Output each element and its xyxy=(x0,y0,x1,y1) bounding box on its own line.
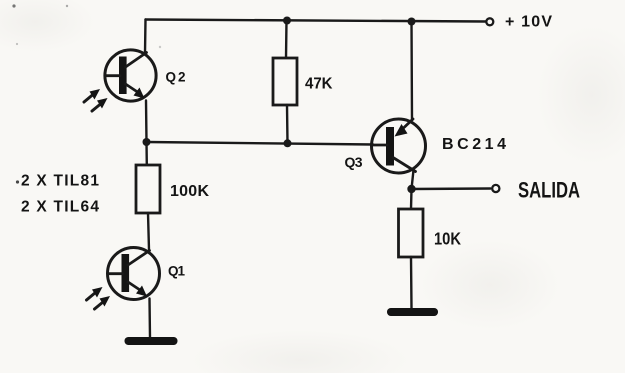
light arrows into Q2 xyxy=(84,89,108,111)
wire Q2 emitter to node xyxy=(145,101,148,143)
wire 100K to Q1 collector xyxy=(148,213,149,250)
wire rail to Q2 collector xyxy=(144,20,147,54)
junction 47K bottom xyxy=(284,139,292,147)
junction rail/47K xyxy=(283,17,291,25)
svg-text:Q3: Q3 xyxy=(345,154,363,170)
wire rail to Q3 emitter xyxy=(410,22,413,121)
wire +10V rail xyxy=(146,20,487,22)
phototransistor Q2 xyxy=(105,50,156,101)
svg-text:100K: 100K xyxy=(170,183,209,200)
output terminal SALIDA xyxy=(492,185,499,192)
svg-text:Q1: Q1 xyxy=(168,264,185,279)
svg-text:47K: 47K xyxy=(305,76,333,93)
wire rail to 47K xyxy=(285,21,288,59)
svg-text:10K: 10K xyxy=(434,229,461,249)
ground 10K xyxy=(387,308,438,316)
wire 10K to ground xyxy=(410,257,413,308)
scan speck top-left xyxy=(12,4,15,7)
ground Q1 xyxy=(125,337,178,345)
junction rail/Q3 emitter xyxy=(408,18,416,26)
power terminal +10V xyxy=(486,18,493,25)
svg-text:Q2: Q2 xyxy=(166,70,186,85)
light arrows into Q1 xyxy=(87,287,111,309)
resistor 47K xyxy=(273,58,297,105)
phototransistor Q1 xyxy=(108,248,160,300)
resistor 10K xyxy=(399,209,424,257)
wire 47K to node xyxy=(286,105,289,143)
junction node SALIDA xyxy=(407,185,415,193)
svg-text:2 X TIL81: 2 X TIL81 xyxy=(21,173,99,190)
junction node Q2/100K xyxy=(143,138,151,146)
wire node to 100K xyxy=(145,142,148,165)
wire node to Q3 base xyxy=(147,142,374,145)
wire Q3 collector to node xyxy=(412,170,414,189)
wire Q1 emitter to ground xyxy=(148,299,151,339)
svg-text:BC214: BC214 xyxy=(442,136,506,153)
wire node to output terminal xyxy=(412,187,491,190)
svg-text:SALIDA: SALIDA xyxy=(518,178,580,203)
resistor 100K xyxy=(136,165,160,213)
transistor Q3 xyxy=(372,119,426,173)
wire node to 10K xyxy=(410,189,413,209)
svg-text:2 X TIL64: 2 X TIL64 xyxy=(21,199,99,216)
svg-text:+ 10V: + 10V xyxy=(505,14,552,31)
